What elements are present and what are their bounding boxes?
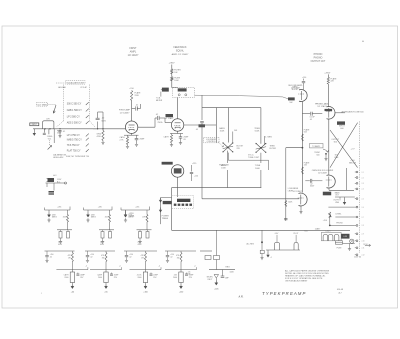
svg-text:.02: .02 <box>129 256 131 258</box>
svg-text:REG: REG <box>226 266 231 268</box>
svg-text:2-1: 2-1 <box>362 172 364 174</box>
svg-text:2-4: 2-4 <box>362 189 364 191</box>
svg-text:-4: -4 <box>194 265 196 267</box>
svg-text:ATTENUATOR LINE 600: ATTENUATOR LINE 600 <box>341 110 364 113</box>
svg-text:600: 600 <box>334 142 337 144</box>
svg-text:2000: 2000 <box>173 277 177 279</box>
svg-text:.05: .05 <box>196 129 199 131</box>
svg-text:2-12: 2-12 <box>362 255 365 257</box>
svg-text:12AX7: 12AX7 <box>315 227 320 230</box>
svg-text:EQUAL: EQUAL <box>176 50 185 53</box>
svg-text:+40: +40 <box>71 292 74 294</box>
svg-text:+160: +160 <box>143 292 147 294</box>
svg-text:BELOW: BELOW <box>349 163 356 165</box>
svg-text:1/2 12AX7: 1/2 12AX7 <box>317 105 327 108</box>
svg-text:AMPL 1/2 12AX7: AMPL 1/2 12AX7 <box>172 53 189 56</box>
svg-text:414-48: 414-48 <box>337 289 344 291</box>
svg-text:FEED BACK: FEED BACK <box>173 46 186 49</box>
svg-text:4: 4 <box>271 257 272 259</box>
svg-text:PLATE 30K: PLATE 30K <box>219 164 229 167</box>
svg-text:2-9: 2-9 <box>362 234 364 236</box>
svg-text:2-7: 2-7 <box>362 217 364 219</box>
svg-text:LP 2 500 CY: LP 2 500 CY <box>67 117 80 119</box>
svg-text:1W: 1W <box>141 257 144 259</box>
svg-text:.02: .02 <box>50 256 52 258</box>
svg-text:-4: -4 <box>85 265 87 267</box>
svg-text:+150: +150 <box>323 220 327 222</box>
svg-text:2-2: 2-2 <box>362 177 364 179</box>
svg-text:.02: .02 <box>156 114 159 116</box>
svg-text:100K: 100K <box>174 80 179 82</box>
svg-text:2000: 2000 <box>98 277 102 279</box>
svg-text:CATH: CATH <box>164 136 170 139</box>
svg-text:600V: 600V <box>102 120 107 122</box>
svg-text:470K: 470K <box>97 136 102 138</box>
svg-text:600: 600 <box>317 154 320 156</box>
svg-text:+405: +405 <box>214 289 218 291</box>
svg-text:FLAT 750 CY: FLAT 750 CY <box>67 150 81 153</box>
svg-text:1MEG: 1MEG <box>91 217 97 219</box>
svg-text:NAB 5 750 CY: NAB 5 750 CY <box>67 138 82 141</box>
svg-text:1/2 12AX7: 1/2 12AX7 <box>293 190 302 193</box>
svg-text:.02: .02 <box>136 105 139 107</box>
svg-text:1W: 1W <box>102 257 105 259</box>
svg-text:2-11: 2-11 <box>362 248 365 250</box>
svg-text:220K: 220K <box>135 95 140 97</box>
svg-text:1W: 1W <box>177 257 180 259</box>
svg-text:+285V: +285V <box>168 63 175 65</box>
svg-text:PILOT: PILOT <box>294 233 299 235</box>
svg-text:.02: .02 <box>170 256 172 258</box>
svg-text:100K: 100K <box>220 131 225 133</box>
svg-text:+265: +265 <box>135 206 139 208</box>
svg-text:LEVEL ADJ: LEVEL ADJ <box>53 156 63 159</box>
svg-text:2-8: 2-8 <box>362 225 364 227</box>
svg-text:+150: +150 <box>194 176 198 178</box>
svg-text:ALL RES: ALL RES <box>247 243 255 246</box>
svg-text:-4: -4 <box>119 265 121 267</box>
svg-text:1/2 12AX7: 1/2 12AX7 <box>128 54 139 57</box>
svg-text:.05: .05 <box>310 119 313 121</box>
svg-text:AES 3 500 CY: AES 3 500 CY <box>67 122 82 125</box>
svg-text:PHONO: PHONO <box>314 57 323 60</box>
svg-text:FUSE: FUSE <box>337 248 343 250</box>
svg-text:1W: 1W <box>68 257 71 259</box>
svg-text:TONE: TONE <box>255 165 261 167</box>
svg-text:+65: +65 <box>104 292 107 294</box>
svg-text:TONE CONT: TONE CONT <box>248 157 260 159</box>
svg-text:1/2 12AX7: 1/2 12AX7 <box>318 172 328 175</box>
svg-text:LINE: LINE <box>334 157 339 159</box>
svg-text:25MF: 25MF <box>140 139 146 141</box>
svg-text:2-6: 2-6 <box>362 207 364 209</box>
svg-text:+150: +150 <box>302 77 306 79</box>
svg-text:4.7 MEG: 4.7 MEG <box>265 137 272 139</box>
svg-text:+285: +285 <box>57 206 61 208</box>
svg-text:2000: 2000 <box>138 277 142 279</box>
svg-text:2-3: 2-3 <box>362 183 364 185</box>
svg-text:1/2 12AX7: 1/2 12AX7 <box>165 117 174 120</box>
svg-text:LP 4 750 CY: LP 4 750 CY <box>67 135 80 137</box>
svg-text:EQUALIZATION SW: EQUALIZATION SW <box>67 81 85 84</box>
svg-text:OUTPUT CKT: OUTPUT CKT <box>311 61 326 63</box>
svg-text:VOL: VOL <box>48 138 52 140</box>
svg-text:100K: 100K <box>221 168 226 170</box>
svg-text:LEVEL: LEVEL <box>288 190 294 192</box>
svg-text:LP FLAT: LP FLAT <box>80 86 87 89</box>
svg-text:500K: 500K <box>255 168 260 170</box>
svg-text:78 6 750 CY: 78 6 750 CY <box>67 145 80 147</box>
svg-text:+250: +250 <box>179 292 183 294</box>
svg-text:600: 600 <box>340 128 343 130</box>
svg-text:FILTER: FILTER <box>270 148 277 150</box>
svg-text:150MA: 150MA <box>129 214 135 217</box>
svg-text:2-10: 2-10 <box>362 241 365 243</box>
svg-text:ON HUM ADJUSTMENT: ON HUM ADJUSTMENT <box>285 280 308 283</box>
svg-text:300 C 500 CY: 300 C 500 CY <box>67 104 82 106</box>
svg-text:-4: -4 <box>159 265 161 267</box>
svg-text:A.R.: A.R. <box>237 295 243 299</box>
svg-text:LEVEL: LEVEL <box>336 214 342 216</box>
svg-text:+285: +285 <box>98 206 102 208</box>
svg-text:115V 60: 115V 60 <box>354 257 361 259</box>
svg-text:AMPL: AMPL <box>130 51 137 54</box>
svg-text:CUT TREB: CUT TREB <box>37 104 47 106</box>
svg-text:FLAT, NO TURNOVER 750: FLAT, NO TURNOVER 750 <box>66 155 89 158</box>
svg-text:6X4: 6X4 <box>304 231 307 233</box>
svg-text:12AX7: 12AX7 <box>325 230 330 233</box>
svg-text:1/2 12AX7: 1/2 12AX7 <box>291 87 301 90</box>
svg-text:AES NAB: AES NAB <box>58 86 66 89</box>
svg-text:2-5: 2-5 <box>362 199 364 201</box>
svg-text:NAB 1 500 CY: NAB 1 500 CY <box>67 109 82 112</box>
svg-text:500K: 500K <box>255 131 260 133</box>
svg-text:INPUT: INPUT <box>32 124 37 126</box>
svg-text:1MEG: 1MEG <box>52 217 58 219</box>
svg-text:METER: METER <box>156 100 163 102</box>
svg-text:TO AMPL: TO AMPL <box>312 145 320 148</box>
svg-text:A.C.: A.C. <box>53 174 57 177</box>
svg-text:PHONO: PHONO <box>336 223 343 225</box>
svg-text:+285V: +285V <box>324 72 331 74</box>
svg-text:2ND A: 2ND A <box>158 121 164 124</box>
svg-text:T Y P E K P R E A M P: T Y P E K P R E A M P <box>262 291 306 296</box>
svg-text:.02: .02 <box>90 256 92 258</box>
svg-text:+295: +295 <box>192 163 196 165</box>
svg-text:TRANS: TRANS <box>162 217 169 220</box>
svg-text:2000: 2000 <box>64 277 68 279</box>
svg-text:+: + <box>362 40 364 44</box>
svg-text:1/2 12AX7: 1/2 12AX7 <box>120 111 131 114</box>
svg-text:FIRST AMP: FIRST AMP <box>119 109 131 112</box>
svg-text:CONTROL: CONTROL <box>207 141 216 143</box>
